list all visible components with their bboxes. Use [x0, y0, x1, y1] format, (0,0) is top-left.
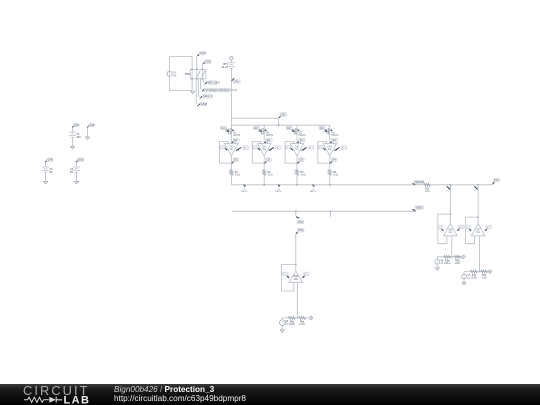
svg-text:1mΩ: 1mΩ — [235, 174, 240, 177]
wire lower bus tap — [295, 211, 297, 216]
resistor R5b — [299, 316, 306, 326]
svg-text:PACK−: PACK− — [241, 190, 249, 193]
svg-text:CELL_4: CELL_4 — [203, 94, 213, 98]
wire battery feed horizontal — [231, 117, 278, 119]
net flag OA4 output — [330, 158, 337, 164]
svg-text:VB: VB — [281, 112, 285, 116]
voltage source V6 — [435, 257, 444, 265]
wire OA5 output down — [296, 282, 298, 319]
svg-text:10kΩ: 10kΩ — [481, 278, 487, 280]
svg-text:http://circuitlab.com/c63p49bd: http://circuitlab.com/c63p49bdpmpr8 — [114, 394, 246, 403]
wire OA4 feedback loop — [318, 141, 331, 164]
battery BT1 — [221, 62, 234, 69]
wire V3 to ground — [45, 173, 47, 182]
svg-text:PACK−: PACK− — [310, 190, 318, 193]
net flag PACK+ — [232, 78, 241, 83]
resistor R1 — [230, 170, 240, 177]
svg-text:NMOS: NMOS — [233, 134, 241, 137]
wire GND tie — [87, 127, 89, 137]
transistor M3 — [291, 128, 306, 137]
resistor R6b — [454, 255, 461, 265]
svg-text:OA1: OA1 — [229, 145, 234, 148]
resistor R7b — [481, 270, 488, 280]
svg-text:SENSE: SENSE — [415, 180, 424, 184]
wire SW1 pin up 2 — [202, 63, 203, 69]
net flag OA5 input left — [282, 272, 289, 278]
op-amp OA7 — [471, 223, 485, 235]
svg-text:G2: G2 — [254, 126, 258, 130]
net flag M1 gate — [221, 126, 229, 132]
net flag M2 source — [265, 138, 273, 143]
wire flag to V4 — [75, 162, 77, 167]
net flag bus right end — [492, 178, 500, 184]
svg-text:NMOS: NMOS — [266, 134, 274, 137]
svg-text:1mΩ: 1mΩ — [425, 191, 430, 193]
net flag OA7 input right — [485, 225, 492, 231]
wire V4 to ground — [75, 173, 77, 182]
wire flag to OA5 — [295, 234, 297, 271]
ground V4 — [74, 181, 78, 184]
wire rail to M4 drain — [329, 125, 331, 129]
svg-text:G3: G3 — [287, 126, 291, 130]
svg-text:OA3: OA3 — [295, 145, 300, 148]
svg-text:5V: 5V — [49, 171, 52, 174]
net flag up 2 — [203, 60, 211, 64]
net flag GND tie — [87, 123, 95, 128]
battery BT2 — [69, 132, 81, 139]
voltage source V5 — [280, 318, 289, 326]
wire SW1 pin down 1 — [203, 79, 204, 82]
net flag OA6 input right — [457, 225, 464, 231]
ground BT2 — [71, 146, 75, 149]
net flag OA5 top — [296, 228, 304, 234]
svg-text:GND: GND — [201, 102, 207, 106]
wire bus to OA7 — [477, 185, 479, 224]
CircuitLab logo — [23, 383, 90, 405]
wire OA6 output down — [451, 236, 453, 258]
svg-text:O3: O3 — [299, 158, 303, 162]
svg-text:CHG: CHG — [200, 51, 206, 55]
wire OA4 output down — [329, 156, 331, 170]
svg-text:O2: O2 — [267, 158, 271, 162]
net flag OA4 input left — [317, 145, 325, 150]
svg-text:10kΩ: 10kΩ — [299, 324, 305, 326]
net flag OA2 output — [265, 158, 272, 164]
svg-text:DSG: DSG — [206, 60, 212, 64]
wire R3 to bus — [296, 175, 298, 185]
voltage source V1 — [167, 70, 177, 77]
svg-text:100kΩ: 100kΩ — [471, 278, 478, 280]
svg-text:G1: G1 — [221, 126, 225, 130]
wire OA7 feedback loop — [466, 217, 479, 244]
op-amp OA3 — [290, 141, 304, 155]
resistor R6a — [444, 255, 451, 265]
net flag right 3 — [200, 94, 213, 98]
net flag bus B3 — [310, 184, 318, 193]
svg-text:PACK−: PACK− — [275, 190, 283, 193]
wire divider row — [437, 256, 461, 258]
ground under V5 — [280, 325, 284, 332]
wire main bus — [231, 184, 492, 186]
wire SW1 pin down 3 — [198, 79, 199, 97]
svg-text:G4: G4 — [320, 126, 324, 130]
svg-text:OA2: OA2 — [262, 145, 267, 148]
resistor R11 shunt — [424, 183, 430, 193]
footer bar — [0, 384, 540, 405]
svg-text:PK+: PK+ — [235, 80, 240, 84]
wire rail to M3 drain — [296, 125, 298, 129]
svg-text:VS1: VS1 — [298, 220, 303, 224]
svg-text:1mΩ: 1mΩ — [333, 174, 338, 177]
net flag OA4 input right — [334, 146, 346, 151]
svg-text:100kΩ: 100kΩ — [288, 324, 295, 326]
node terminal — [230, 57, 233, 60]
svg-text:1V: 1V — [441, 263, 444, 265]
resistor R3 — [295, 170, 305, 177]
ground under V6 — [435, 264, 439, 270]
net flag bus B1 — [241, 184, 249, 193]
wire bus to OA6 — [450, 185, 452, 224]
wire R4 to bus — [329, 175, 331, 185]
transistor M1 — [225, 128, 240, 137]
svg-text:OA7: OA7 — [476, 228, 481, 231]
net flag OA5 input right — [303, 272, 310, 278]
net flag OA6 top — [446, 186, 450, 192]
wire BT2 to ground — [72, 138, 74, 147]
net flag bus tap — [296, 217, 304, 224]
net flag right 2 (long) — [202, 88, 238, 92]
ground V3 — [44, 181, 48, 184]
terminal OUT5 — [309, 316, 313, 320]
resistor R5a — [288, 316, 295, 326]
svg-text:100kΩ: 100kΩ — [444, 263, 451, 265]
net flag OA3 input left — [285, 145, 293, 150]
wire R2 to bus — [263, 175, 265, 185]
svg-text:VS1: VS1 — [298, 228, 303, 232]
transistor M4 — [324, 128, 339, 137]
wire M1 source down — [230, 134, 232, 144]
wire battery down — [230, 68, 232, 118]
wire OA3 feedback loop — [285, 141, 298, 164]
wire rail to M1 drain — [230, 125, 232, 129]
wire divider row 5 — [282, 317, 309, 319]
svg-text:CHG: CHG — [48, 158, 54, 162]
net flag V3 — [45, 158, 53, 163]
net flag OA2 input right — [269, 146, 281, 151]
wire OA7 output down — [479, 236, 481, 273]
ground tie — [86, 137, 90, 140]
svg-text:DSG: DSG — [78, 158, 84, 162]
battery V4 — [70, 167, 80, 174]
wire node to battery — [230, 60, 232, 63]
op-amp OA1 — [225, 141, 239, 155]
ground at switch — [191, 91, 195, 94]
wire feed drop to rail — [278, 118, 280, 125]
wire lower bus — [232, 210, 416, 212]
net flag OA7 input left — [465, 225, 472, 231]
op-amp OA5 — [289, 271, 303, 282]
svg-text:O1: O1 — [234, 158, 238, 162]
resistor R7a — [470, 270, 477, 280]
net flag OA3 output — [297, 158, 304, 164]
svg-text:Bign00b426 / Protection_3: Bign00b426 / Protection_3 — [114, 385, 215, 394]
svg-text:To Voltage Indicating Circuit: To Voltage Indicating Circuit — [205, 88, 237, 92]
svg-text:GND: GND — [90, 123, 96, 127]
svg-text:LAB: LAB — [64, 395, 91, 405]
footer title text — [114, 385, 246, 403]
svg-text:SW1: SW1 — [185, 72, 191, 76]
svg-text:NMOS: NMOS — [331, 134, 339, 137]
wire OA6 feedback loop — [438, 214, 451, 244]
svg-text:1V: 1V — [285, 324, 288, 326]
net flag M2 gate — [253, 126, 261, 132]
net flag M4 gate — [319, 126, 327, 132]
wire SW1 pin up 1 — [197, 55, 198, 69]
wire flag to V3 — [45, 162, 47, 167]
op-amp OA2 — [257, 141, 271, 155]
svg-text:15V: 15V — [76, 136, 81, 139]
net flag M3 source — [297, 138, 305, 143]
svg-text:O4: O4 — [332, 158, 336, 162]
net flag right 4 — [198, 102, 207, 106]
voltage source V7 — [462, 272, 471, 280]
net flag M4 source — [330, 138, 338, 143]
terminal OUT7 — [488, 270, 492, 274]
resistor R4 — [328, 170, 338, 177]
wire divider row — [464, 271, 488, 273]
wire rail to M2 drain — [263, 125, 265, 129]
net flag OA2 input left — [252, 145, 260, 150]
op-amp OA4 — [323, 141, 337, 155]
svg-text:BAT_SEN: BAT_SEN — [208, 81, 220, 85]
wire SW1 pin down 4 — [196, 79, 197, 104]
battery V3 — [42, 167, 53, 174]
net flag OA1 input right — [236, 146, 248, 151]
net flag V4 — [76, 158, 84, 163]
wire M4 source down — [329, 134, 331, 144]
svg-text:14.4V: 14.4V — [221, 65, 228, 69]
wire V1 loop top — [170, 56, 193, 71]
svg-text:PK+: PK+ — [75, 123, 80, 127]
net flag OA3 input right — [302, 146, 314, 151]
net flag OA1 output — [232, 158, 239, 164]
wire OA3 output down — [296, 156, 298, 170]
resistor R2 — [263, 170, 273, 177]
net flag bus sense — [413, 180, 424, 185]
switch SW1 — [185, 69, 206, 80]
svg-text:PK−: PK− — [494, 178, 499, 182]
svg-text:5V: 5V — [70, 171, 73, 174]
svg-text:OA4: OA4 — [327, 145, 332, 148]
svg-text:VSET: VSET — [416, 206, 423, 210]
wire flag to BT2 — [72, 127, 74, 131]
wire OA1 feedback loop — [220, 141, 233, 164]
svg-text:NMOS: NMOS — [299, 134, 307, 137]
svg-text:10kΩ: 10kΩ — [455, 263, 461, 265]
wire OA2 feedback loop — [252, 141, 265, 164]
ground under V7 — [462, 279, 466, 285]
op-amp OA6 — [444, 223, 458, 235]
net flag OA7 top — [474, 186, 478, 192]
net flag up 1 — [198, 51, 206, 56]
net flag right 1 — [205, 81, 220, 85]
wire M3 source down — [296, 134, 298, 144]
net flag lower bus end — [412, 206, 423, 211]
net flag M1 source — [232, 138, 240, 143]
svg-text:1mΩ: 1mΩ — [300, 174, 305, 177]
svg-text:OA6: OA6 — [448, 228, 453, 231]
net flag at feed end — [279, 112, 287, 118]
net flag M3 gate — [286, 126, 294, 132]
wire R1 to bus — [230, 175, 232, 185]
svg-text:1mΩ: 1mΩ — [268, 174, 273, 177]
wire OA1 output down — [230, 156, 232, 170]
svg-text:1V: 1V — [467, 278, 470, 280]
wire SW1 pin down 2 — [201, 79, 202, 90]
net flag OA6 input left — [437, 225, 444, 231]
wire V1 loop bottom — [170, 76, 193, 90]
wire OA5 feedback loop — [281, 264, 295, 291]
transistor M2 — [258, 128, 273, 137]
net flag PACK+ source — [72, 123, 80, 128]
net flag bus B2 — [275, 184, 283, 193]
wire OA2 output down — [263, 156, 265, 170]
wire drain rail — [231, 118, 329, 126]
wire stub on lower bus — [329, 211, 331, 217]
svg-text:5V: 5V — [173, 73, 176, 77]
wire M2 source down — [263, 134, 265, 144]
net flag OA1 input left — [219, 145, 227, 150]
terminal OUT6 — [461, 255, 465, 259]
